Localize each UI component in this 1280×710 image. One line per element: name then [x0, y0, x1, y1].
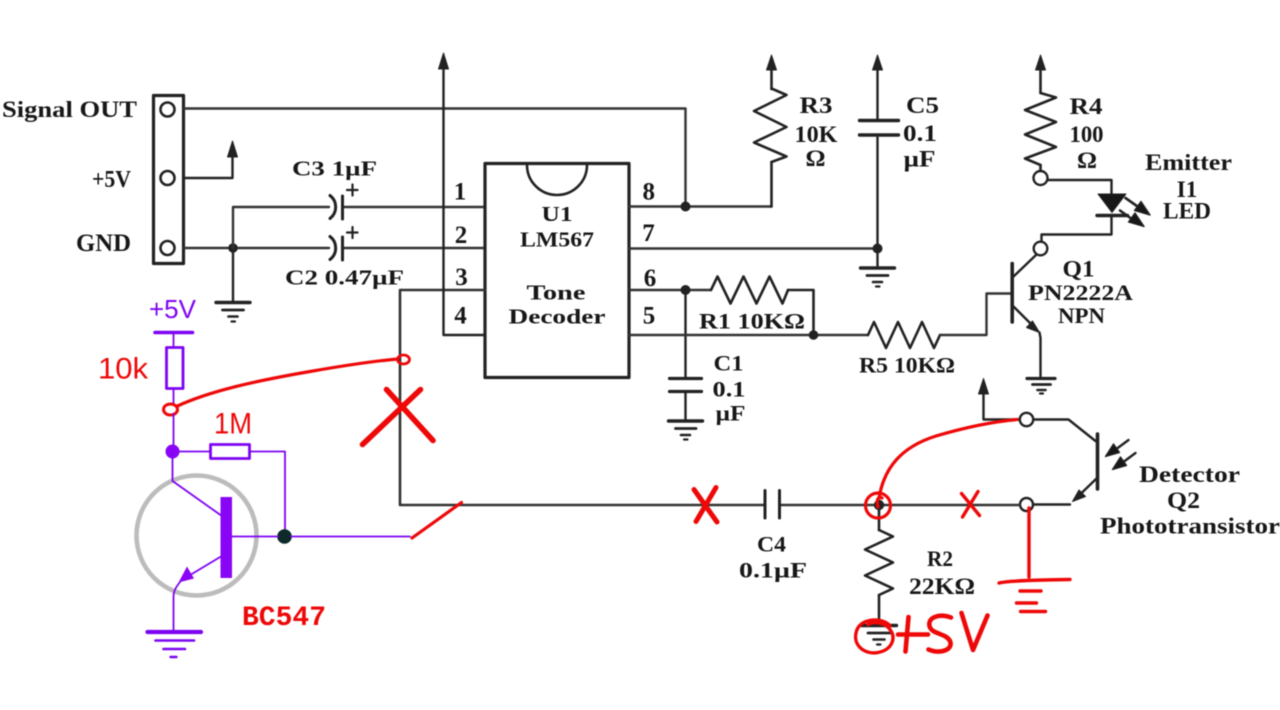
- annotation red curve 10k to pin 3: [178, 355, 410, 406]
- svg-text:7: 7: [642, 220, 655, 247]
- ground C5: [861, 249, 895, 287]
- svg-text:+5V: +5V: [149, 294, 197, 324]
- svg-text:Ω: Ω: [806, 146, 826, 171]
- annotation small red x on bottom wire: [962, 492, 980, 518]
- wire Signal OUT to pin 8: [184, 109, 686, 204]
- annotation red curve junction to Q2 collector: [879, 420, 1017, 499]
- svg-text:C5: C5: [906, 93, 939, 118]
- wire 1M to base node (purple): [250, 452, 286, 531]
- svg-text:4: 4: [454, 303, 467, 330]
- svg-text:5: 5: [643, 303, 656, 330]
- annotation red X on bottom wire: [694, 488, 717, 523]
- svg-text:R1 10KΩ: R1 10KΩ: [699, 309, 805, 334]
- node purple junction: [166, 445, 180, 459]
- resistor R4 with supply arrow: [1025, 55, 1056, 185]
- wire junction to 1M (purple): [178, 451, 211, 453]
- ground Q1 emitter: [1027, 379, 1055, 394]
- wire pin 8: [629, 205, 772, 207]
- annotation red circle at C4 R2 junction: [866, 493, 891, 518]
- svg-text:µF: µF: [904, 147, 936, 172]
- svg-text:8: 8: [643, 179, 656, 206]
- resistor R2: [865, 505, 893, 624]
- svg-text:6: 6: [644, 265, 657, 292]
- wire bottom net C4 to Q2 emitter: [780, 504, 1021, 507]
- capacitor C3: [330, 185, 358, 220]
- wire pin 5: [629, 334, 868, 336]
- svg-text:PN2222A: PN2222A: [1028, 280, 1133, 305]
- svg-text:Q2: Q2: [1167, 488, 1200, 513]
- capacitor C2: [330, 227, 358, 260]
- svg-text:0.1: 0.1: [903, 121, 937, 146]
- transistor BC547 (hand-drawn): [137, 452, 279, 632]
- capacitor C1: [670, 290, 702, 420]
- transistor Q1: [1012, 242, 1047, 377]
- wire 10k to junction (purple): [173, 414, 175, 448]
- svg-text:100: 100: [1070, 122, 1104, 147]
- svg-text:NPN: NPN: [1058, 303, 1105, 328]
- resistor 10k (purple): [167, 348, 184, 389]
- wire pin 3 loop: [400, 290, 765, 505]
- svg-text:10K: 10K: [795, 122, 838, 147]
- svg-text:R3: R3: [800, 93, 833, 118]
- svg-text:Decoder: Decoder: [509, 305, 606, 329]
- LED I1: [1042, 180, 1151, 241]
- svg-text:BC547: BC547: [242, 603, 326, 634]
- svg-text:R5 10KΩ: R5 10KΩ: [859, 353, 955, 378]
- svg-text:1: 1: [454, 179, 467, 206]
- wire pin 6: [629, 289, 711, 291]
- wire pin 7: [629, 247, 878, 249]
- svg-text:LM567: LM567: [520, 228, 594, 252]
- svg-text:Q1: Q1: [1063, 257, 1095, 282]
- svg-text:10k: 10k: [98, 353, 149, 386]
- node pin 5 / R1 junction: [809, 330, 819, 340]
- transistor Q2 phototransistor: [1020, 413, 1136, 511]
- svg-text:2: 2: [455, 222, 468, 249]
- wire R5 to Q1 base: [940, 294, 1011, 336]
- ground C1: [669, 421, 703, 440]
- svg-text:GND: GND: [76, 230, 131, 257]
- svg-text:R4: R4: [1070, 94, 1104, 119]
- power bar +5V (purple): [155, 333, 193, 348]
- svg-text:R2: R2: [927, 546, 953, 571]
- wire pin 4 Vcc with arrow: [439, 53, 486, 335]
- capacitor C5 with supply arrow: [860, 55, 899, 245]
- wire +5V with supply arrow: [184, 141, 238, 178]
- svg-text:C2 0.47µF: C2 0.47µF: [285, 266, 404, 290]
- node base (dark dot): [277, 529, 292, 544]
- svg-text:µF: µF: [716, 401, 746, 426]
- svg-text:0.1µF: 0.1µF: [739, 558, 807, 583]
- annotation red wire Q2 emitter to ground: [1027, 508, 1030, 577]
- node pin 6 junction: [681, 285, 691, 295]
- connector J1: [154, 96, 184, 264]
- ground R2: [862, 626, 897, 645]
- svg-text:Tone: Tone: [527, 281, 586, 305]
- annotation big red X on pin 3 wire: [363, 390, 434, 445]
- annotation red cut mark near pin 3 wire: [412, 503, 462, 539]
- wire GND row: [184, 247, 485, 249]
- annotation red scribble around R2 ground: [856, 620, 893, 653]
- svg-text:1M: 1M: [214, 408, 252, 441]
- svg-text:LED: LED: [1163, 199, 1211, 224]
- svg-text:C1: C1: [714, 351, 744, 376]
- node pin 8 junction: [681, 202, 691, 212]
- ground BC547 (purple): [148, 632, 202, 657]
- svg-text:+5V: +5V: [92, 167, 132, 193]
- IC U1 LM567: [485, 164, 629, 378]
- annotation red cut circle at 10k: [164, 404, 178, 415]
- svg-text:0.1: 0.1: [713, 377, 746, 402]
- capacitor C4: [765, 491, 780, 519]
- wire 10k lower lead (purple): [173, 389, 175, 405]
- svg-text:Phototransistor: Phototransistor: [1100, 514, 1280, 539]
- resistor R5: [868, 322, 940, 348]
- svg-text:Emitter: Emitter: [1145, 150, 1232, 175]
- svg-text:Detector: Detector: [1139, 462, 1240, 487]
- annotation red ground (hand-drawn): [999, 580, 1070, 612]
- annotation handwritten +5V (red): [898, 613, 988, 652]
- svg-text:22KΩ: 22KΩ: [909, 574, 975, 600]
- wire Q2 collector with supply arrow: [979, 379, 1020, 420]
- resistor R3 with supply arrow: [754, 55, 787, 207]
- node pin 7 junction: [873, 244, 883, 254]
- wire pin 1 row: [233, 207, 485, 248]
- wire base node to right (purple): [291, 536, 410, 538]
- svg-text:Ω: Ω: [1077, 148, 1097, 173]
- node C4 R2 junction: [874, 500, 884, 510]
- resistor R1: [711, 277, 814, 336]
- svg-text:Signal OUT: Signal OUT: [2, 97, 137, 122]
- resistor 1M (purple): [211, 445, 250, 459]
- svg-text:C3 1µF: C3 1µF: [292, 157, 377, 181]
- svg-text:U1: U1: [542, 202, 573, 226]
- svg-text:C4: C4: [757, 532, 786, 557]
- ground (input): [216, 248, 250, 322]
- svg-text:3: 3: [455, 264, 468, 291]
- node GND junction: [228, 243, 238, 253]
